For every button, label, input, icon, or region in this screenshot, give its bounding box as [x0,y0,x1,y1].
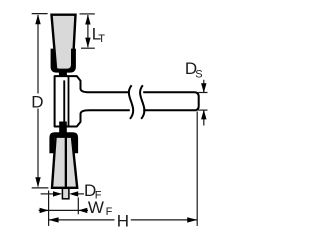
dimension DS: ticks [198,80,207,126]
top ferrule (black U clamp) [51,49,76,73]
dimension D: arrow down [35,177,40,187]
svg-text:T: T [98,33,105,45]
dimension D: bottom tick [32,187,49,189]
dimension WF: arrow left [78,208,87,213]
dimension H: line left [49,219,115,221]
dimension D: line upper [37,15,39,94]
dimension WF: left extension line [39,191,88,226]
dimension H: arrow right [187,217,197,222]
dimension DF: arrow left [69,191,78,196]
dimension DS: arrow up [201,110,206,120]
top stem (hub neck) [59,70,67,81]
break gap eraser [130,89,143,114]
dimension DS: line upper [203,80,205,93]
bottom shank tip (small stem below tuft) [62,188,69,199]
break squiggle left [129,85,133,119]
dimension WF: arrow right [40,208,49,213]
svg-text:H: H [117,211,129,230]
dimension DF: line with arrows at stem [41,193,84,195]
svg-text:F: F [106,206,113,218]
label LT (trim length) [92,25,106,45]
dimension D: line lower [37,109,39,187]
bottom tuft centerline [65,134,67,187]
bottom ferrule (black arch clamp) [49,132,78,153]
hub centerline [63,80,65,121]
dimension H: line right [131,219,197,221]
dimension LT: arrow up [85,15,90,25]
label H (total length) [117,211,129,230]
dimension DS: line lower [203,110,205,126]
label WF (fill width) [88,198,113,218]
hub plate right edge [68,76,70,126]
dimension D: top tick [32,14,49,188]
svg-text:W: W [88,198,104,217]
svg-text:S: S [195,69,202,81]
label D (diameter) [31,93,43,112]
hub and shank body (white with black outline) [55,76,199,126]
dimension LT: ticks [80,14,95,48]
label DS (shank diameter) [185,59,203,80]
dimension DS: arrow down [201,83,206,93]
dimension D: arrow up [35,14,40,24]
break squiggle right [140,85,144,119]
dimension WF: right extension line [77,198,79,215]
dimension LT: line [87,15,89,47]
label DF (fill diameter) [84,181,102,201]
dimension H: arrow left [49,217,59,222]
bottom stem (hub neck) [59,122,67,134]
dimension WF: line [39,209,79,211]
top tuft (brush fill, trapezoid) [52,15,76,71]
svg-text:D: D [31,93,43,112]
dimension DF: arrow right [53,191,62,196]
dimension LT: arrow down [85,38,90,48]
bottom tuft (brush fill, trapezoid) [52,137,77,188]
dimension H: right extension line [49,112,198,226]
